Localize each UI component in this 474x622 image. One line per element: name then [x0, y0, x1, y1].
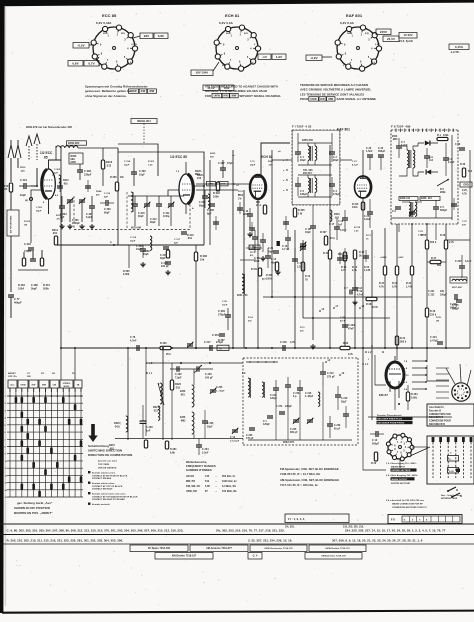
- svg-text:WITHOUT SIGNAL ON AERIAL: WITHOUT SIGNAL ON AERIAL: [240, 94, 282, 98]
- svg-text:VOLTAGES MEASURED TO AGAINS: VOLTAGES MEASURED TO AGAINST CHASSIS WIT…: [205, 84, 278, 88]
- svg-text:Kontakt arbeitet oben und unte: Kontakt arbeitet oben und unten: [92, 492, 126, 495]
- svg-text:65 pF: 65 pF: [334, 428, 341, 430]
- svg-text:C 11: C 11: [250, 161, 255, 163]
- svg-text:GRUNDIG VTYM MEASURING VALU: GRUNDIG VTYM MEASURING VALUES VALID: [205, 89, 267, 93]
- svg-text:4,7k: 4,7k: [290, 341, 295, 344]
- right output resistor R30: [462, 168, 465, 177]
- svg-text:1M: 1M: [24, 224, 27, 226]
- svg-text:9236: 9236: [180, 391, 186, 393]
- svg-text:200k: 200k: [43, 287, 49, 290]
- svg-text:SORTIE SECTEUR: SORTIE SECTEUR: [391, 483, 410, 485]
- svg-text:R 26: R 26: [440, 234, 446, 237]
- wire y=369 osc: [170, 368, 213, 370]
- svg-text:C 19: C 19: [338, 221, 344, 223]
- vertical feed line x=210: [209, 160, 211, 245]
- svg-text:UKW-Geräusche 7218-178: UKW-Geräusche 7218-178: [264, 548, 293, 550]
- transfer arrow/pot: [437, 179, 449, 186]
- cap C19 4,7nF lower: [352, 287, 358, 289]
- resistor R306 1M: [115, 182, 118, 191]
- resistor R31 vertical: [328, 250, 331, 259]
- svg-text:C 203: C 203: [246, 435, 253, 437]
- wires into FI: [272, 159, 292, 161]
- svg-text:0,7k: 0,7k: [392, 285, 397, 288]
- svg-text:560pF: 560pF: [440, 209, 448, 212]
- FI primary coil pair: [308, 146, 310, 160]
- svg-text:R225(: R225(: [114, 423, 121, 425]
- label box left of EAF 801: [306, 55, 322, 61]
- svg-text:Wellenbereiche,: Wellenbereiche,: [186, 460, 207, 464]
- svg-text:-01k: -01k: [63, 183, 68, 185]
- svg-text:2%, 302,: 2%, 302,: [285, 527, 295, 529]
- svg-text:330pF: 330pF: [452, 307, 460, 310]
- svg-text:R 31: R 31: [323, 252, 329, 255]
- resistor R221: [170, 380, 173, 390]
- FII secondary coils: [409, 202, 411, 216]
- svg-text:30pF: 30pF: [138, 215, 144, 218]
- svg-text:ECH 81: ECH 81: [225, 13, 240, 18]
- svg-text:220 k: 220 k: [430, 313, 437, 316]
- svg-text:-218: -218: [175, 386, 181, 389]
- svg-text:30pF: 30pF: [160, 257, 166, 260]
- svg-text:560pF: 560pF: [378, 150, 386, 153]
- svg-text:47nF: 47nF: [340, 319, 346, 322]
- FI dashed enclosure: [292, 130, 340, 205]
- resistor R28 22M horizontal: [366, 297, 377, 300]
- wire V1b plate right: [193, 185, 204, 187]
- coupling capacitor C 202 470pF: [28, 247, 34, 249]
- svg-text:4,7pF: 4,7pF: [352, 163, 359, 166]
- trimmer C203 242pF: [196, 366, 198, 372]
- extra ground symbols: [249, 232, 251, 234]
- AM osc coil 9236-M82: [192, 412, 194, 434]
- svg-text:150A: 150A: [18, 287, 24, 290]
- bus line y=318: [303, 317, 390, 319]
- svg-text:ARRET: ARRET: [8, 372, 16, 375]
- cap C18 mid: [310, 225, 316, 227]
- svg-text:C 26: C 26: [268, 248, 274, 250]
- svg-text:+0,6V: +0,6V: [131, 44, 138, 46]
- svg-text:4,7 nF: 4,7 nF: [282, 248, 290, 251]
- svg-text:-0,5V: -0,5V: [77, 43, 84, 47]
- AM coil mid: [318, 392, 320, 406]
- svg-text:245V: 245V: [380, 30, 387, 34]
- resistor R304 below EM87: [406, 392, 409, 401]
- resistor R22 383k: [395, 336, 398, 345]
- svg-text:C 206: C 206: [207, 423, 214, 425]
- svg-text:9239: 9239: [56, 215, 62, 217]
- svg-text:9pF: 9pF: [104, 196, 109, 198]
- svg-text:S 30: S 30: [449, 471, 454, 473]
- svg-text:1,9V: 1,9V: [276, 55, 282, 59]
- cap C5 560pF: [433, 206, 439, 208]
- cap C209 1nF: [140, 420, 147, 422]
- capacitor C303 15pF: [131, 171, 137, 173]
- label boxes right of EAF 801: [376, 29, 391, 35]
- svg-text:VUE DE DESSUS: VUE DE DESSUS: [98, 467, 117, 469]
- svg-text:-1,9 5P...: -1,9 5P...: [450, 50, 461, 54]
- svg-text:+95V: +95V: [398, 257, 404, 259]
- svg-text:C 221: C 221: [428, 291, 435, 293]
- FII right vertical: [451, 135, 453, 220]
- svg-text:330: 330: [440, 291, 445, 293]
- svg-text:30pF: 30pF: [36, 210, 42, 212]
- wire y=440 inside AM box: [248, 439, 352, 441]
- svg-text:0,2V: 0,2V: [375, 44, 380, 46]
- switch contacts (filled bars): [15, 397, 18, 403]
- svg-text:-324: -324: [2, 187, 8, 191]
- svg-text:C 26: C 26: [455, 143, 461, 146]
- capacitor C307 47pF: [220, 167, 226, 169]
- cap C26 top right: [459, 147, 465, 149]
- svg-text:-321: -321: [153, 409, 159, 412]
- IF coil 9225: [208, 194, 210, 208]
- ratio detector diode D1: [425, 140, 430, 145]
- svg-text:3..30pF: 3..30pF: [305, 396, 314, 398]
- svg-text:2,7k: 2,7k: [449, 241, 454, 244]
- svg-text:9286- 016: 9286- 016: [421, 198, 432, 200]
- svg-text:MW: MW: [328, 97, 333, 101]
- resistor R26 2.7k: [444, 240, 447, 249]
- svg-text:-1V: -1V: [250, 62, 254, 64]
- capacitor C223 47nF: [342, 324, 348, 326]
- svg-text:DIRECTION DE COMMUTATION: DIRECTION DE COMMUTATION: [88, 453, 132, 457]
- svg-text:C 28: C 28: [340, 317, 346, 319]
- svg-text:R 16: R 16: [305, 276, 311, 278]
- svg-text:1 M: 1 M: [298, 212, 302, 215]
- svg-text:MW, PO: MW, PO: [186, 480, 195, 483]
- svg-text:R 12: R 12: [238, 191, 244, 193]
- cap C272 220pF: [279, 411, 285, 413]
- cap C210 375pF: [320, 371, 326, 373]
- wires from bus 348 down: [145, 348, 147, 436]
- resistor R27 68k horizontal: [430, 260, 441, 263]
- svg-text:DECODER WHEN PLUG: DECODER WHEN PLUG: [378, 419, 403, 421]
- cap C225 330pF: [456, 299, 462, 301]
- cap C206 50pF: [202, 420, 208, 422]
- svg-text:1620 kHz, kc: 1620 kHz, kc: [222, 480, 237, 483]
- svg-text:KW: KW: [141, 89, 146, 93]
- svg-text:22 M: 22 M: [372, 306, 378, 309]
- svg-text:5,85: 5,85: [205, 485, 210, 488]
- label box below ECH 81: [203, 85, 219, 91]
- svg-text:0,8C: 0,8C: [158, 34, 165, 38]
- svg-text:2%, 302, 203, 219, 216, 76: 2%, 302, 203, 219, 216, 76, 77, 217, 218…: [216, 529, 285, 533]
- wire left column down: [10, 236, 12, 292]
- svg-text:MW: MW: [150, 89, 155, 93]
- svg-text:4,7k: 4,7k: [379, 285, 384, 288]
- ground symbols front end: [61, 224, 63, 226]
- svg-text:Aus: Aus: [10, 384, 15, 387]
- svg-text:R219: R219: [20, 167, 26, 169]
- svg-text:10pF: 10pF: [20, 194, 26, 197]
- legend bullet 3: [88, 492, 90, 494]
- svg-text:AM FM ANTENNE: AM FM ANTENNE: [10, 215, 13, 233]
- capacitor C309 270pF: [225, 314, 231, 316]
- svg-text:85: 85: [44, 155, 48, 159]
- svg-text:220pF: 220pF: [84, 173, 92, 176]
- wires inside FII bottom: [391, 217, 452, 219]
- svg-text:22nF: 22nF: [254, 260, 260, 263]
- bus line y=363: [148, 362, 243, 364]
- label box UKW-Geraeusche: [250, 545, 307, 552]
- svg-text:R 307: R 307: [218, 339, 225, 342]
- resistor R281 6.8k: [165, 441, 168, 449]
- svg-text:AM-Antenne 7219-577: AM-Antenne 7219-577: [206, 547, 232, 550]
- svg-text:C 6: C 6: [392, 210, 396, 213]
- socket phono (top view): [388, 435, 412, 459]
- cap C7 horizontal top: [349, 290, 351, 295]
- svg-text:4,7nF: 4,7nF: [340, 229, 347, 232]
- svg-text:1,2k: 1,2k: [354, 230, 359, 232]
- svg-text:-213: -213: [106, 164, 112, 167]
- svg-text:Netz - Schalter/Herz: Netz - Schalter/Herz: [441, 494, 461, 497]
- svg-text:330pF: 330pF: [440, 294, 447, 296]
- svg-text:ECH 81: ECH 81: [261, 155, 273, 159]
- cap C219 in AM box: [335, 394, 341, 396]
- svg-text:C: 4: C: 4: [253, 555, 258, 558]
- coil R225-242 on x=128: [126, 416, 128, 432]
- cap C26 56pF: [273, 250, 279, 252]
- svg-text:UKW: UKW: [130, 89, 137, 93]
- svg-text:FREQUENCY RANGES: FREQUENCY RANGES: [186, 464, 216, 468]
- svg-text:1,5nF: 1,5nF: [418, 234, 425, 236]
- caps at tuner bottom: [163, 246, 169, 248]
- svg-text:C 77: C 77: [14, 297, 20, 301]
- AM cap row 1: [273, 387, 279, 389]
- caps between buses: [285, 237, 291, 239]
- capacitor C306 8pF: [209, 203, 215, 205]
- rule below R row: [0, 543, 474, 545]
- svg-text:50pF: 50pF: [199, 205, 205, 207]
- svg-text:EAF 801: EAF 801: [337, 128, 350, 132]
- svg-text:10pF: 10pF: [305, 231, 311, 234]
- boxed label RESH-304: [131, 119, 157, 124]
- diagonal pin wires decoder socket: [446, 368, 455, 384]
- cap C17 below FI: [334, 226, 340, 228]
- svg-text:C 29: C 29: [222, 301, 228, 303]
- grid components below ECH81: [263, 205, 266, 214]
- cap C25 below EAF: [367, 211, 373, 213]
- svg-text:AM-Spulensatz, COIL SET, BLOC: AM-Spulensatz, COIL SET, BLOC BOBINAGE: [280, 478, 339, 482]
- svg-text:LW GO: LW GO: [186, 475, 194, 478]
- resistor R25 500k: [425, 240, 428, 249]
- svg-text:100k: 100k: [213, 195, 219, 198]
- svg-text:4,7nF: 4,7nF: [249, 248, 256, 251]
- svg-text:R: 302, 201,: R: 302, 201, 202, 210, 211, 215, 216, 22…: [7, 539, 124, 543]
- svg-text:9227-008: 9227-008: [452, 287, 462, 289]
- long wire y=417: [368, 416, 452, 418]
- svg-text:UKW, FM: UKW, FM: [186, 490, 197, 493]
- svg-text:CONTACT EN BAS: CONTACT EN BAS: [92, 477, 112, 480]
- wire matrix to bus: [60, 348, 62, 380]
- svg-text:C 23: C 23: [418, 231, 424, 233]
- resistor R306 100A: [275, 262, 278, 271]
- mains switch symbols below connector box: [448, 487, 456, 491]
- svg-text:MONTRE EN POS. „ARRET“: MONTRE EN POS. „ARRET“: [14, 511, 53, 515]
- svg-text:130pF: 130pF: [300, 193, 308, 196]
- trimmer C13 right of mixer: [232, 429, 238, 431]
- svg-text:350 kHz, kc: 350 kHz, kc: [222, 475, 236, 478]
- svg-text:0,7k: 0,7k: [341, 269, 346, 272]
- resistor R16 78: [301, 262, 304, 271]
- svg-text:Kontakt wechselt: Kontakt wechselt: [92, 503, 110, 506]
- label box UKW right: [305, 553, 362, 560]
- svg-text:2,7k: 2,7k: [352, 269, 357, 272]
- svg-text:-M82: -M82: [180, 420, 186, 422]
- svg-text:82V: 82V: [244, 33, 249, 35]
- left verticals to bus: [271, 245, 273, 297]
- svg-text:25 k: 25 k: [166, 353, 171, 356]
- svg-text:2,2nF: 2,2nF: [202, 451, 209, 454]
- svg-text:C 317: C 317: [174, 239, 181, 241]
- svg-text:90pF: 90pF: [104, 211, 110, 214]
- svg-text:15k: 15k: [200, 258, 205, 261]
- label box ZF-Spare: [130, 545, 188, 552]
- svg-text:4,7nF: 4,7nF: [130, 339, 137, 342]
- resistor under ECH81: [258, 268, 261, 276]
- svg-text:0,47uF: 0,47uF: [430, 339, 438, 342]
- svg-text:C 272: C 272: [276, 406, 283, 408]
- coil mixer: [150, 236, 152, 250]
- resistor R302 100k: [216, 182, 219, 191]
- label +3 node: [233, 183, 235, 185]
- svg-text:9070-0M: 9070-0M: [131, 227, 141, 230]
- svg-text:8pF: 8pF: [207, 212, 212, 215]
- boxed label R303 96A GRD: [69, 153, 83, 164]
- cap C300 16pF: [140, 248, 146, 250]
- svg-text:765- 900-: 765- 900-: [303, 170, 313, 172]
- x node markers mid: [319, 310, 321, 312]
- svg-text:-M33: -M33: [392, 139, 398, 141]
- svg-text:R 203: R 203: [24, 221, 31, 223]
- svg-text:SANS SIGNAL A L'ANTENNE: SANS SIGNAL A L'ANTENNE: [337, 97, 377, 101]
- svg-text:ohne Signal an der Antenne.: ohne Signal an der Antenne.: [85, 94, 127, 98]
- svg-text:1/2 ECC 85: 1/2 ECC 85: [170, 155, 187, 159]
- svg-text:-324: -324: [20, 169, 25, 172]
- svg-text:2pF: 2pF: [54, 172, 59, 174]
- svg-text:3,4 = Netz Ausgang 110...240V: 3,4 = Netz Ausgang 110...240V~: [386, 474, 419, 477]
- svg-text:C 216: C 216: [305, 393, 312, 395]
- cap C76 on bus: [136, 345, 138, 351]
- FI primary caps: [295, 151, 301, 153]
- svg-text:470pF: 470pF: [24, 250, 32, 253]
- FII dashed enclosure: [391, 129, 458, 131]
- svg-text:1%: 1%: [238, 194, 241, 196]
- svg-text:145: 145: [205, 475, 210, 478]
- svg-text:68k: 68k: [437, 264, 442, 267]
- wire antenna feed: [10, 172, 12, 182]
- boxed GRD under ECH: [249, 245, 260, 250]
- page frame bottom rule: [2, 610, 474, 614]
- FII secondary trimmers: [409, 211, 415, 213]
- main bus line y=348: [61, 347, 470, 349]
- wire RESH feed: [118, 144, 158, 176]
- svg-text:9051-150: 9051-150: [237, 294, 248, 297]
- svg-text:KW: KW: [320, 97, 325, 101]
- svg-text:(E): (E): [25, 200, 28, 202]
- svg-text:CONNEXION-SECTEUR POUR PU: CONNEXION-SECTEUR POUR PU: [392, 507, 427, 509]
- terminal box AM FM ANTENNE (rotated text): [7, 210, 19, 236]
- resistor R23 0.7k: [395, 266, 398, 275]
- svg-text:C 217: C 217: [204, 341, 211, 344]
- svg-text:9225-: 9225-: [210, 153, 216, 155]
- resistor chain mid: [343, 252, 346, 261]
- resistor R26b 220k: [425, 308, 428, 317]
- svg-text:INTERRUPTEUR: INTERRUPTEUR: [441, 498, 458, 500]
- svg-text:C 302: C 302: [54, 169, 61, 171]
- trimmer row AM: [293, 419, 299, 421]
- label box AM-Antenne: [190, 545, 248, 552]
- svg-text:86V: 86V: [222, 65, 227, 67]
- cap C204 2.2nF: [196, 444, 202, 446]
- cap C1 120pF: [267, 415, 273, 417]
- extra caps dense band: [57, 185, 63, 187]
- svg-text:F I : 1, 9, 4, 4,: F I : 1, 9, 4, 4,: [288, 517, 305, 521]
- antenna arrows stereo decoder: [26, 136, 32, 146]
- bus line front end top: [78, 147, 118, 149]
- svg-text:...: ...: [215, 480, 217, 483]
- svg-text:STEREO: STEREO: [63, 383, 71, 385]
- label box left of ECH 81: [191, 70, 213, 76]
- svg-text:R 315: R 315: [352, 204, 359, 206]
- wires below EM87: [394, 388, 396, 410]
- coil R210-01k on column: [59, 175, 61, 186]
- label box UKW-Drehko: [309, 545, 366, 552]
- AM dashed box 9052-070: [243, 357, 358, 359]
- resistor R216-213: [101, 160, 104, 169]
- svg-text:C 219: C 219: [341, 398, 348, 400]
- svg-text:x.1: x.1: [365, 363, 369, 366]
- svg-text:93V: 93V: [144, 34, 150, 38]
- svg-text:CONNECTION FOR: CONNECTION FOR: [429, 414, 451, 416]
- svg-text:0,7V: 0,7V: [88, 61, 94, 65]
- caps row under FI: [252, 236, 258, 238]
- svg-text:1V 63V: 1V 63V: [403, 33, 412, 37]
- front-end trimmer capacitors: [67, 199, 73, 201]
- svg-text:C 281: C 281: [36, 207, 43, 209]
- svg-text:56pF: 56pF: [268, 251, 274, 253]
- svg-text:242 pF: 242 pF: [205, 376, 213, 379]
- svg-text:1,2 = Netzeingang 110...240V~: 1,2 = Netzeingang 110...240V~: [386, 462, 418, 465]
- svg-text:Spannungen mit Grundig Röhr: Spannungen mit Grundig Röhrenvoltmeter: [85, 85, 149, 89]
- label boxes right of ECH 81: [258, 54, 271, 60]
- svg-text:3,5-9,5pF: 3,5-9,5pF: [230, 440, 240, 442]
- svg-text:V.: V.: [449, 459, 451, 461]
- svg-text:C 216: C 216: [293, 393, 300, 395]
- svg-text:SHOWN IN OFF POSITION: SHOWN IN OFF POSITION: [14, 506, 50, 510]
- resistor R24 1.4M: [410, 266, 413, 275]
- svg-text:383 k: 383 k: [400, 340, 407, 343]
- svg-text:C 307: C 307: [218, 162, 225, 165]
- svg-text:3kpF: 3kpF: [31, 287, 37, 290]
- svg-text:90pF: 90pF: [333, 159, 339, 162]
- svg-text:R 11: R 11: [300, 327, 305, 329]
- svg-text:CONTACT AT TOP AND BOTTOM OF B: CONTACT AT TOP AND BOTTOM OF BLOCK: [92, 495, 138, 498]
- wire column x=61 top: [60, 146, 62, 348]
- svg-text:1%: 1%: [238, 198, 241, 200]
- svg-text:1/40pF: 1/40pF: [72, 222, 80, 225]
- wire plate of V1a: [49, 160, 62, 169]
- svg-text:C 312: C 312: [104, 193, 111, 195]
- svg-text:120pF: 120pF: [263, 424, 270, 426]
- svg-text:KW: KW: [223, 94, 228, 98]
- wire front-end bottom bus: [56, 244, 204, 246]
- svg-text:0,6V: 0,6V: [72, 61, 78, 65]
- svg-text:8: 8: [457, 393, 458, 395]
- svg-text:224, 225, 226, 227, 14, 15, 1: 224, 225, 226, 227, 14, 15, 16, 17, 20, …: [345, 529, 446, 533]
- svg-text:1M: 1M: [120, 176, 123, 179]
- svg-text:...: ...: [215, 475, 217, 478]
